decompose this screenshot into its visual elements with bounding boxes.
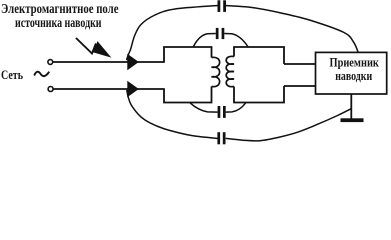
svg-text:источника наводки: источника наводки bbox=[15, 15, 102, 30]
text: Электромагнитное поле источника наводки bbox=[1, 1, 119, 30]
wire: upper mains lead bbox=[53, 61, 165, 63]
wire: outer shield arc (top-right, receiver to C1) bbox=[225, 6, 358, 53]
wire: inner arc top-right (C2 to secondary loop) bbox=[224, 34, 248, 47]
wire: inner arc top-left (primary loop to C2) bbox=[194, 34, 216, 47]
transformer secondary winding L2 bbox=[226, 56, 234, 86]
wire: primary loop (left rectangle) bbox=[164, 47, 212, 103]
arrowhead on upper mains wire bbox=[127, 54, 139, 71]
parasitic capacitor C1 (outer top) bbox=[218, 0, 227, 12]
transformer primary winding L1 bbox=[212, 57, 220, 86]
terminal T1 (upper mains) bbox=[48, 60, 53, 65]
ground bbox=[341, 118, 364, 122]
terminal T2 (lower mains) bbox=[48, 87, 53, 92]
wire: inner arc bottom-left (primary loop to C3) bbox=[190, 103, 218, 112]
parasitic capacitor C2 (inner top) bbox=[216, 28, 225, 39]
wire: secondary to receiver (upper) bbox=[284, 63, 316, 65]
wire: outer shield arc (lower-left, below lower mains wire to C4) bbox=[127, 90, 218, 138]
arrowhead on lower mains wire bbox=[127, 81, 139, 98]
lightning arrow (interference strike) bbox=[76, 38, 110, 57]
wire: secondary loop (right rectangle) bbox=[234, 47, 284, 103]
wire: lower mains lead bbox=[53, 88, 164, 90]
svg-text:наводки: наводки bbox=[335, 69, 372, 83]
wire: outer shield arc (bottom-right, C4 to ground lead) bbox=[226, 109, 352, 141]
receiver box U1: Приемник наводки bbox=[316, 52, 387, 94]
svg-text:Приемник: Приемник bbox=[330, 56, 380, 70]
wire: receiver ground lead bbox=[350, 94, 352, 119]
parasitic capacitor C4 (outer bottom) bbox=[217, 132, 225, 144]
wire: inner arc bottom-right (C3 to secondary loop) bbox=[226, 103, 246, 112]
svg-text:Сеть: Сеть bbox=[1, 67, 23, 82]
wire: outer shield arc (upper-left, C1 down to upper mains wire) bbox=[127, 6, 218, 61]
parasitic capacitor C3 (inner bottom) bbox=[218, 106, 226, 118]
AC source symbol ~ bbox=[34, 72, 49, 76]
wire: secondary to receiver (lower) bbox=[284, 85, 316, 87]
